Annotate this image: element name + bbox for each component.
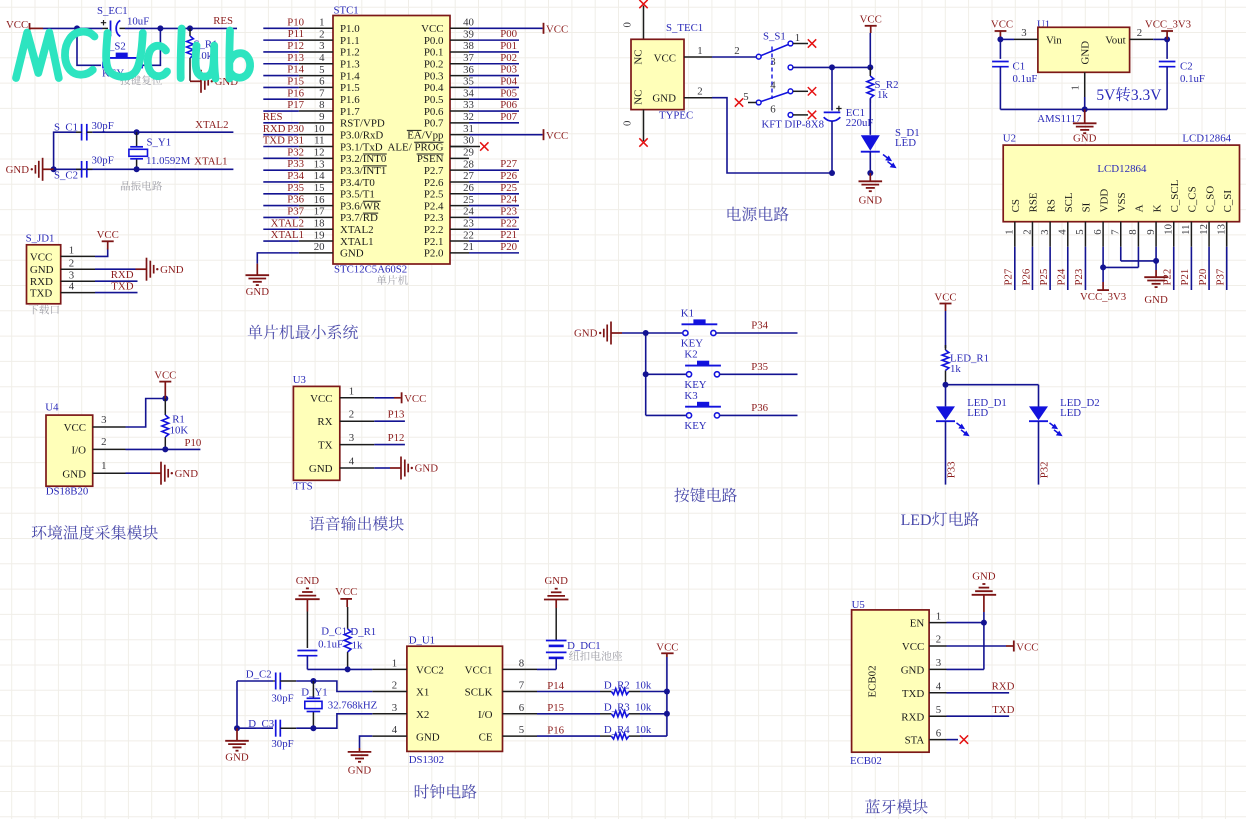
net label RES <box>263 111 283 123</box>
wire VCC rail (clock) <box>666 657 668 736</box>
junction <box>1153 258 1159 264</box>
svg-text:P25: P25 <box>1038 269 1050 286</box>
svg-text:TYPEC: TYPEC <box>659 109 693 121</box>
svg-text:10: 10 <box>314 123 325 135</box>
svg-text:ALE/ PROG: ALE/ PROG <box>388 141 444 153</box>
capacitor S_C2 <box>54 155 114 182</box>
ground (S_JD1) <box>136 258 184 281</box>
IC U2 body <box>1003 145 1239 222</box>
power port VCC (U1) <box>991 18 1013 39</box>
net label P15 <box>547 702 564 714</box>
resistor LED_R1 <box>942 345 989 385</box>
svg-text:GND: GND <box>859 195 883 207</box>
svg-text:S_S1: S_S1 <box>763 30 786 42</box>
svg-text:STC12C5A60S2: STC12C5A60S2 <box>334 264 407 276</box>
IC U1 pin 3 <box>1014 27 1038 39</box>
svg-text:11: 11 <box>314 135 324 147</box>
logo MCUclub <box>16 29 250 79</box>
svg-text:VCC2: VCC2 <box>416 665 444 677</box>
svg-text:2: 2 <box>319 28 324 40</box>
svg-text:D_DC1: D_DC1 <box>567 640 601 652</box>
svg-text:1: 1 <box>1004 229 1016 234</box>
svg-text:GND: GND <box>340 248 364 260</box>
svg-text:39: 39 <box>463 28 474 40</box>
svg-text:GND: GND <box>62 468 86 480</box>
wire net P37 <box>1226 247 1228 290</box>
wire net P17 <box>263 110 299 112</box>
power port VCC (LED) <box>934 291 956 311</box>
power port VCC (reset circuit) <box>6 19 43 34</box>
svg-text:VCC: VCC <box>64 422 86 434</box>
svg-text:VCC: VCC <box>934 291 956 303</box>
svg-text:12: 12 <box>1198 224 1210 235</box>
net label P24 <box>1056 268 1068 285</box>
svg-text:P04: P04 <box>500 76 517 88</box>
wire net P10 <box>263 27 299 29</box>
svg-text:ECB02: ECB02 <box>866 665 878 697</box>
wire EC1 top <box>831 67 833 110</box>
push button K2 <box>684 349 721 391</box>
ground (D_DC1) <box>544 575 569 608</box>
capacitor S_EC1 <box>97 5 149 36</box>
ground (crystal) <box>6 158 54 181</box>
capacitor C2 <box>1159 39 1205 109</box>
resistor D_R3 <box>600 702 652 717</box>
junction <box>664 689 670 695</box>
wire button right leg <box>142 28 160 65</box>
net label P21 <box>1179 269 1191 286</box>
wire to K3 <box>646 414 686 416</box>
wire GND (pin20) <box>257 253 299 264</box>
svg-text:LCD12864: LCD12864 <box>1097 163 1147 175</box>
wire net RXD (U5) <box>947 692 1010 694</box>
LED LED_D1 <box>936 397 1007 435</box>
net label P10 <box>287 16 304 28</box>
IC U3 pins 1-4 <box>340 385 375 468</box>
svg-text:VCC: VCC <box>335 586 357 598</box>
svg-text:GND: GND <box>30 264 54 276</box>
svg-text:3: 3 <box>1021 27 1026 39</box>
svg-text:P15: P15 <box>547 702 564 714</box>
svg-text:VCC1: VCC1 <box>465 665 493 677</box>
svg-text:P27: P27 <box>500 158 517 170</box>
svg-text:GND: GND <box>652 93 676 105</box>
svg-text:S_C2: S_C2 <box>54 170 78 182</box>
svg-text:RXD: RXD <box>30 276 53 288</box>
svg-text:XTAL1: XTAL1 <box>340 236 374 248</box>
svg-text:10k: 10k <box>635 702 652 714</box>
svg-text:30pF: 30pF <box>92 120 114 132</box>
svg-text:RXD: RXD <box>111 269 134 281</box>
junction <box>997 36 1003 42</box>
svg-text:Vin: Vin <box>1046 35 1062 47</box>
wire net RXD <box>95 280 138 282</box>
LED S_D1 <box>861 127 920 167</box>
svg-text:VCC_3V3: VCC_3V3 <box>1145 18 1191 30</box>
net label P34 <box>287 170 304 182</box>
ground (D_U1 pin4) <box>348 748 372 776</box>
IC U5 pin names <box>866 618 924 747</box>
power port VCC_3V3 (U2) <box>1080 282 1126 303</box>
IC U3 comment TTS <box>293 480 312 492</box>
svg-text:23: 23 <box>463 217 474 229</box>
switch S_S1 pole 5-4 <box>735 80 816 107</box>
svg-text:14: 14 <box>314 170 325 182</box>
svg-text:D_R1: D_R1 <box>350 626 376 638</box>
svg-text:RST/VPD: RST/VPD <box>340 118 385 130</box>
wire button left leg <box>77 28 101 65</box>
net label P11 <box>288 28 304 40</box>
wire net P22 <box>1173 247 1175 290</box>
svg-text:P2.4: P2.4 <box>424 200 444 212</box>
label 纽扣电池座 <box>569 651 622 661</box>
connector S_TEC1 designator <box>666 22 703 34</box>
svg-text:RES: RES <box>213 15 233 27</box>
IC D_U1 pins <box>372 657 537 736</box>
svg-text:5V: 5V <box>1096 87 1116 104</box>
svg-text:PSEN: PSEN <box>417 153 444 165</box>
svg-text:XTAL2: XTAL2 <box>271 217 304 229</box>
ground (MCU pin20) <box>246 264 270 298</box>
svg-text:1: 1 <box>795 32 800 44</box>
junction <box>187 25 193 31</box>
junction <box>1082 106 1088 112</box>
svg-text:P26: P26 <box>500 170 517 182</box>
net label P06 <box>500 99 517 111</box>
svg-text:10K: 10K <box>170 425 189 437</box>
svg-text:EN: EN <box>910 618 925 630</box>
net label P12 <box>388 432 405 444</box>
svg-text:KFT DIP-8X8: KFT DIP-8X8 <box>762 119 825 131</box>
svg-text:P05: P05 <box>500 87 517 99</box>
svg-text:GND: GND <box>175 468 199 480</box>
ground (U2) <box>1144 261 1168 306</box>
svg-text:VSS: VSS <box>1116 192 1128 212</box>
svg-text:1k: 1k <box>950 363 961 375</box>
net label XTAL2 <box>271 217 304 229</box>
net label P37 <box>287 206 304 218</box>
svg-text:D_R2: D_R2 <box>604 679 630 691</box>
svg-text:2: 2 <box>936 634 941 646</box>
svg-text:P20: P20 <box>1197 269 1209 286</box>
svg-text:S_JD1: S_JD1 <box>26 232 55 244</box>
svg-text:P03: P03 <box>500 64 517 76</box>
wire net P07 <box>469 122 519 124</box>
svg-text:P30: P30 <box>287 123 304 135</box>
switch S_S1 pin 6 <box>770 103 816 119</box>
svg-text:P12: P12 <box>388 432 405 444</box>
svg-text:22: 22 <box>463 229 474 241</box>
net label P01 <box>500 40 517 52</box>
junction <box>157 25 163 31</box>
wire VSS/K to GND <box>1121 247 1156 261</box>
wire gnd rail (U1) <box>1000 97 1167 109</box>
svg-text:20: 20 <box>314 241 325 253</box>
svg-text:2: 2 <box>392 680 397 692</box>
svg-text:P34: P34 <box>287 170 304 182</box>
ground (U1) <box>1073 109 1097 144</box>
wire pin1 to VCC <box>374 397 401 399</box>
svg-text:7: 7 <box>519 680 525 692</box>
IC STC1 right pins 40-21 <box>450 17 475 254</box>
wire net P16 <box>537 735 600 737</box>
label 蓝牙模块 <box>865 799 928 814</box>
wire D_C3 to X2 <box>296 714 372 728</box>
svg-text:P33: P33 <box>287 158 304 170</box>
svg-text:VCC: VCC <box>991 18 1013 30</box>
svg-text:D_U1: D_U1 <box>409 635 435 647</box>
svg-text:C_SO: C_SO <box>1204 186 1216 213</box>
svg-text:1: 1 <box>69 245 74 257</box>
svg-text:30pF: 30pF <box>271 693 293 705</box>
svg-text:Vout: Vout <box>1105 35 1125 47</box>
svg-text:3: 3 <box>349 432 354 444</box>
svg-text:P10: P10 <box>184 437 201 449</box>
svg-text:P3.6/WR: P3.6/WR <box>340 200 381 212</box>
svg-text:P1.2: P1.2 <box>340 47 360 59</box>
svg-text:7: 7 <box>319 87 325 99</box>
label 电源电路 <box>728 207 789 222</box>
svg-text:220uF: 220uF <box>846 117 874 129</box>
svg-text:P1.1: P1.1 <box>340 35 360 47</box>
svg-text:SI: SI <box>1081 202 1093 212</box>
label 单片机 <box>377 275 408 285</box>
resistor S_R2 <box>867 67 899 103</box>
junction <box>829 170 835 176</box>
svg-text:P15: P15 <box>287 76 304 88</box>
wire net P26 <box>469 181 519 183</box>
IC U1 body <box>1038 27 1130 72</box>
ground (U4) <box>150 462 198 485</box>
net label P23 <box>1073 269 1085 286</box>
svg-text:P3.0/RxD: P3.0/RxD <box>340 129 383 141</box>
wire net P24 <box>1067 247 1069 290</box>
ground (D_C1) <box>295 575 320 612</box>
net label P03 <box>500 64 517 76</box>
connector S_JD1 designator <box>26 232 55 244</box>
junction <box>867 64 873 70</box>
wire net P27 <box>1014 247 1016 290</box>
wire pin3 junction to VCC rail <box>832 66 870 68</box>
resistor D_R2 <box>600 679 652 694</box>
ground (S_R1) <box>190 70 238 93</box>
net label P24 <box>500 194 517 206</box>
junction <box>943 382 949 388</box>
svg-text:P24: P24 <box>1056 268 1068 285</box>
net label P25 <box>1038 269 1050 286</box>
svg-text:P21: P21 <box>1179 269 1191 286</box>
net label P13 <box>388 409 405 421</box>
svg-text:P3.3/INT1: P3.3/INT1 <box>340 165 386 177</box>
svg-text:11.0592M: 11.0592M <box>146 155 191 167</box>
svg-text:P20: P20 <box>500 241 517 253</box>
svg-text:P14: P14 <box>547 680 564 692</box>
IC U2 pins 1-13 <box>1004 222 1228 247</box>
wire LED to gnd rail <box>869 152 871 173</box>
svg-text:C1: C1 <box>1013 61 1026 73</box>
net label P26 <box>500 170 517 182</box>
net label P27 <box>1003 268 1015 285</box>
svg-text:P2.5: P2.5 <box>424 189 444 201</box>
svg-text:33: 33 <box>463 99 474 111</box>
svg-text:P1.7: P1.7 <box>340 106 360 118</box>
net label P12 <box>287 40 304 52</box>
svg-text:4: 4 <box>770 80 776 92</box>
svg-text:GND: GND <box>309 463 333 475</box>
svg-text:5: 5 <box>519 724 524 736</box>
svg-text:16: 16 <box>314 194 325 206</box>
svg-text:37: 37 <box>463 52 474 64</box>
svg-text:TTS: TTS <box>293 480 312 492</box>
svg-text:31: 31 <box>463 123 474 135</box>
junction <box>981 620 987 626</box>
svg-text:VCC: VCC <box>1016 641 1038 653</box>
svg-text:P23: P23 <box>1073 269 1085 286</box>
svg-text:1k: 1k <box>352 640 363 652</box>
wire pin2 to GND <box>95 268 136 270</box>
svg-text:1k: 1k <box>877 89 888 101</box>
svg-text:P10: P10 <box>287 16 304 28</box>
wire S_EC1 to RES <box>125 27 237 29</box>
svg-text:P0.0: P0.0 <box>424 35 444 47</box>
net label P36 <box>751 402 768 414</box>
svg-text:7: 7 <box>1110 229 1122 235</box>
svg-text:LED: LED <box>967 407 988 419</box>
svg-text:1: 1 <box>936 610 941 622</box>
wire net P22 <box>469 228 519 230</box>
svg-text:GND: GND <box>415 463 439 475</box>
svg-text:S_TEC1: S_TEC1 <box>666 22 703 34</box>
connector S_TEC1 pin names <box>633 49 677 104</box>
svg-text:VDD: VDD <box>1098 189 1110 213</box>
svg-text:GND: GND <box>296 575 320 587</box>
svg-text:4: 4 <box>1057 229 1069 235</box>
svg-text:P3.7/RD: P3.7/RD <box>340 212 378 224</box>
capacitor D_C1 <box>297 612 347 670</box>
svg-text:VCC: VCC <box>30 251 52 263</box>
power port VCC <box>544 23 569 36</box>
net label P27 <box>500 158 517 170</box>
svg-text:24: 24 <box>463 206 474 218</box>
svg-text:P2.7: P2.7 <box>424 165 444 177</box>
net label P33 <box>946 461 958 478</box>
net label P20 <box>1197 269 1209 286</box>
svg-text:32: 32 <box>463 111 474 123</box>
label 环境温度采集模块 <box>32 525 158 540</box>
net label P05 <box>500 87 517 99</box>
IC U3 designator <box>293 374 306 386</box>
connector S_JD1 pin names <box>30 251 54 299</box>
svg-text:C_CS: C_CS <box>1187 186 1199 212</box>
IC U3 body <box>293 386 339 480</box>
svg-text:TXD: TXD <box>263 135 285 147</box>
net label P30 <box>287 123 304 135</box>
junction <box>1164 36 1170 42</box>
svg-text:LED: LED <box>901 512 932 529</box>
wire VDD/A to VCC_3V3 <box>1103 247 1138 282</box>
svg-text:TXD: TXD <box>111 280 133 292</box>
svg-text:5: 5 <box>1074 229 1086 234</box>
svg-text:13: 13 <box>314 158 325 170</box>
power port VCC (U4) <box>154 369 176 398</box>
wire net XTAL1 <box>263 240 299 242</box>
svg-text:VCC_3V3: VCC_3V3 <box>1080 291 1126 303</box>
svg-text:NC: NC <box>633 49 645 64</box>
wire to VCC rail <box>640 735 667 737</box>
power port VCC (S_JD1) <box>97 229 119 249</box>
svg-text:K3: K3 <box>684 390 697 402</box>
svg-text:P02: P02 <box>500 52 517 64</box>
svg-text:2: 2 <box>101 436 106 448</box>
svg-text:VCC: VCC <box>546 130 568 142</box>
svg-text:X2: X2 <box>416 709 429 721</box>
net label P25 <box>500 182 517 194</box>
svg-text:P16: P16 <box>287 87 304 99</box>
svg-text:RXD: RXD <box>901 711 924 723</box>
svg-text:P1.3: P1.3 <box>340 59 360 71</box>
net label RXD <box>111 269 134 281</box>
net label XTAL1 <box>271 229 304 241</box>
wire LED_D1 anode <box>945 385 947 407</box>
label LED灯电路 <box>901 512 979 529</box>
wire net P32 <box>1038 421 1040 484</box>
junction <box>134 129 140 135</box>
wire net P23 <box>469 216 519 218</box>
svg-text:3: 3 <box>101 414 106 426</box>
IC U1 pin 2 <box>1130 27 1154 39</box>
IC U2 designator <box>1003 133 1016 145</box>
wire EN/GND to gnd <box>947 612 984 669</box>
svg-text:TXD: TXD <box>30 288 53 300</box>
ground (D_C2/D_C3) <box>225 728 249 763</box>
wire to LED_D2 branch <box>946 385 1039 407</box>
svg-text:3.3V: 3.3V <box>1131 87 1162 104</box>
wire net P26 <box>1031 247 1033 290</box>
svg-text:P33: P33 <box>946 461 958 478</box>
svg-text:AMS1117: AMS1117 <box>1037 113 1082 125</box>
capacitor D_C2 <box>237 668 296 704</box>
svg-text:I/O: I/O <box>478 709 493 721</box>
svg-text:VCC: VCC <box>656 641 678 653</box>
svg-text:GND: GND <box>1073 133 1097 145</box>
svg-text:P13: P13 <box>388 409 405 421</box>
IC U4 designator <box>45 401 59 413</box>
wire net P03 <box>469 75 519 77</box>
net label P33 <box>287 158 304 170</box>
net label P21 <box>500 229 517 241</box>
switch S_S1 pole 1-2 <box>734 32 816 59</box>
wire D_C2 to X1 <box>296 681 372 692</box>
wire net XTAL2 <box>263 228 299 230</box>
svg-text:8: 8 <box>319 99 324 111</box>
wire net P12 <box>374 444 405 446</box>
svg-text:3: 3 <box>392 702 397 714</box>
wire net P35 <box>720 373 798 375</box>
svg-text:P35: P35 <box>287 182 304 194</box>
wire net P02 <box>469 63 519 65</box>
svg-text:P3.1/TxD: P3.1/TxD <box>340 141 383 153</box>
IC STC1 pin names <box>340 23 444 260</box>
label 晶振电路 <box>121 181 162 191</box>
svg-text:P2.0: P2.0 <box>424 248 444 260</box>
power port VCC (U5) <box>1014 641 1039 654</box>
wire XTAL2 <box>92 131 233 133</box>
capacitor S_C1 <box>54 120 114 140</box>
switch S_S1 comment <box>762 119 825 131</box>
wire to K2 <box>646 373 686 375</box>
ground (U3) <box>390 457 438 480</box>
junction <box>134 166 140 172</box>
